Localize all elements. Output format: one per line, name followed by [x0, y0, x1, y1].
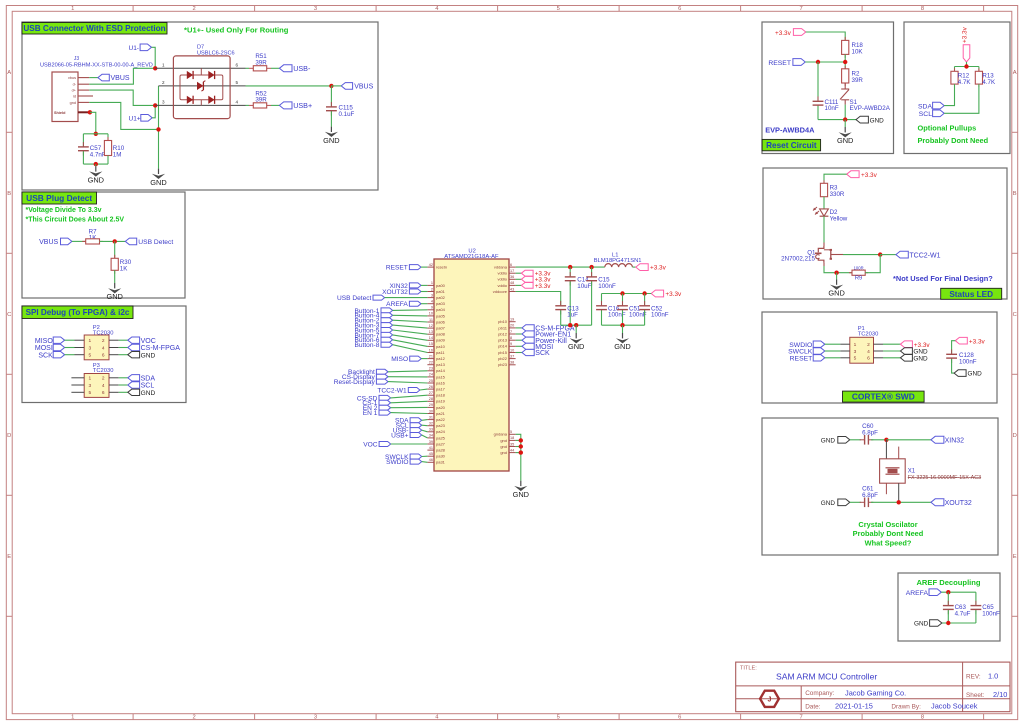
flag +3.3v P1: [900, 341, 912, 348]
title block frame: [736, 662, 1010, 712]
section box Reset Circuit: [762, 22, 894, 154]
node source ground junction: [834, 271, 838, 275]
svg-text:*U1+- Used Only For Routing: *U1+- Used Only For Routing: [184, 26, 289, 35]
svg-text:EVP-AWBD2A: EVP-AWBD2A: [850, 105, 891, 112]
D7 internal diodes top pair: [187, 71, 193, 79]
svg-text:GND: GND: [913, 355, 928, 362]
node reset-R18 junction: [843, 60, 847, 64]
svg-text:2: 2: [192, 715, 195, 721]
svg-text:10: 10: [429, 312, 433, 316]
crystal X1: [880, 459, 906, 483]
switch S1 EVP-AWBD2A: [844, 83, 846, 89]
svg-text:GND: GND: [513, 490, 529, 499]
svg-text:25: 25: [429, 379, 433, 383]
svg-text:pb11: pb11: [498, 325, 507, 330]
flag +3.3v decoupling group 2: [651, 290, 663, 297]
ground symbol below U2: [520, 481, 522, 486]
D7 pin row lines: [155, 67, 245, 69]
svg-text:13: 13: [429, 330, 433, 334]
svg-text:2: 2: [102, 338, 105, 344]
svg-text:23: 23: [429, 367, 433, 371]
svg-text:Sheet:: Sheet:: [966, 692, 985, 699]
flag TCC2-W1 status led: [880, 254, 896, 256]
svg-text:29: 29: [429, 403, 433, 407]
wire R18 to reset node: [844, 54, 846, 68]
logo hexagon J: [760, 691, 779, 707]
svg-text:+3.3v: +3.3v: [962, 26, 969, 43]
svg-text:39R: 39R: [852, 77, 864, 84]
svg-text:pa31: pa31: [436, 460, 446, 465]
svg-text:BLM18PG471SN1: BLM18PG471SN1: [594, 258, 642, 264]
svg-text:3: 3: [314, 6, 317, 12]
ground symbol below C115: [330, 127, 332, 132]
svg-text:C: C: [1013, 312, 1017, 318]
node ground rail junctions: [568, 323, 572, 327]
svg-text:100nF: 100nF: [651, 312, 669, 319]
svg-text:AREF Decoupling: AREF Decoupling: [916, 578, 980, 587]
svg-text:J3: J3: [74, 56, 80, 62]
flag USB+ out: [271, 104, 279, 106]
svg-text:45: 45: [429, 452, 433, 456]
svg-text:REV:: REV:: [966, 674, 981, 681]
svg-text:3: 3: [854, 349, 857, 355]
svg-text:2/10: 2/10: [993, 690, 1007, 699]
svg-text:A: A: [1013, 70, 1017, 76]
svg-text:6: 6: [235, 63, 238, 68]
svg-text:SAM ARM MCU Controller: SAM ARM MCU Controller: [776, 672, 877, 682]
svg-text:D: D: [7, 433, 11, 439]
pin stubs P3 left unconnected: [71, 377, 84, 379]
resistor R3 330R: [823, 180, 825, 183]
flag GND reset circuit: [856, 116, 868, 123]
flag USB- out: [271, 67, 279, 69]
svg-text:pa22: pa22: [436, 417, 446, 422]
svg-text:10: 10: [510, 348, 514, 352]
wires P1 right side: [874, 343, 884, 345]
svg-text:X1: X1: [908, 469, 916, 475]
svg-text:Company:: Company:: [805, 690, 834, 697]
wire +3.3v to R3: [824, 174, 847, 183]
svg-text:Probably Dont Need: Probably Dont Need: [853, 529, 924, 538]
svg-text:pb15: pb15: [498, 350, 508, 355]
flag +3.3v C128: [955, 337, 967, 344]
U2 right side power pins: [509, 266, 516, 268]
wire U1- to junction: [152, 47, 156, 68]
svg-text:R9: R9: [855, 276, 862, 282]
node XOUT32 junction: [897, 500, 901, 504]
svg-text:Drawn By:: Drawn By:: [891, 704, 921, 711]
svg-text:Shield: Shield: [54, 111, 66, 115]
svg-text:26: 26: [429, 385, 433, 389]
ground symbol reset circuit: [844, 127, 846, 132]
wire shield to RC filter: [90, 112, 96, 134]
wire R7 to USB Detect: [100, 240, 126, 242]
svg-text:6: 6: [102, 390, 105, 396]
svg-text:3: 3: [89, 345, 92, 351]
svg-text:39: 39: [429, 440, 433, 444]
node J3 shield junction: [88, 110, 92, 114]
svg-text:GND: GND: [914, 621, 929, 628]
svg-text:41: 41: [429, 446, 433, 450]
resistor R30 1K: [114, 255, 116, 258]
svg-text:pa02: pa02: [436, 295, 446, 300]
wire U2 grounds to ground symbol: [516, 434, 521, 480]
svg-text:pa19: pa19: [436, 399, 446, 404]
node AREF ground junction: [946, 621, 950, 625]
U2 ground pins: [509, 433, 516, 435]
node C15 junction: [589, 265, 593, 269]
svg-text:0.1uF: 0.1uF: [339, 111, 355, 118]
LED D2 Yellow: [820, 209, 829, 216]
svg-text:pa13: pa13: [436, 362, 446, 367]
svg-text:10uF: 10uF: [577, 283, 591, 290]
svg-text:GND: GND: [141, 390, 156, 397]
wires P3 right side: [109, 377, 119, 379]
section box AREF Decoupling: [898, 573, 1000, 641]
svg-text:2021-01-15: 2021-01-15: [835, 702, 873, 711]
capacitor C115 0.1uF: [330, 86, 332, 106]
ground symbol below D7: [158, 169, 160, 174]
node D+ junction: [153, 103, 157, 107]
wire D7 pin2 to ground: [158, 86, 160, 169]
svg-text:Status LED: Status LED: [949, 290, 993, 299]
svg-text:SCK: SCK: [38, 352, 53, 359]
svg-text:1.0: 1.0: [988, 672, 998, 681]
svg-text:44: 44: [510, 448, 514, 452]
wire GND to C60: [850, 439, 861, 441]
svg-text:2: 2: [867, 342, 870, 348]
svg-text:pa15: pa15: [436, 374, 446, 379]
wire decoupling ground rail 2: [602, 324, 645, 326]
svg-text:id: id: [73, 95, 76, 99]
svg-text:TITLE:: TITLE:: [740, 666, 757, 672]
flag CS-M-FPGA: [128, 344, 140, 350]
wire RESET to node: [805, 61, 845, 63]
svg-text:6: 6: [678, 715, 681, 721]
svg-text:FX-3225-16.0000MF-15X-AC3: FX-3225-16.0000MF-15X-AC3: [908, 475, 981, 481]
svg-text:24: 24: [429, 373, 433, 377]
node pullup junction: [964, 64, 968, 68]
svg-text:AREFA: AREFA: [386, 301, 408, 308]
capacitor C13 1uF: [560, 301, 562, 306]
wire decoupling ground rail 1: [561, 324, 592, 326]
svg-text:7: 7: [799, 715, 802, 721]
svg-text:9: 9: [431, 306, 433, 310]
flag +3.3v after L1: [633, 266, 636, 268]
node VBUS junction: [329, 84, 333, 88]
svg-text:vbus: vbus: [68, 76, 76, 80]
flag GND P3: [128, 389, 140, 395]
svg-text:MOSI: MOSI: [35, 345, 53, 352]
svg-text:pa18: pa18: [436, 393, 446, 398]
svg-text:J: J: [768, 696, 772, 703]
svg-text:pa14: pa14: [436, 368, 446, 373]
resistor R52 39R: [246, 104, 250, 106]
svg-text:4: 4: [102, 383, 105, 389]
svg-text:pa27: pa27: [436, 441, 446, 446]
power flags +3.3v at VDDIO pins: [516, 272, 522, 274]
svg-text:1: 1: [162, 63, 165, 68]
ground symbol decoupling 1: [575, 325, 577, 333]
svg-text:pa28: pa28: [436, 448, 446, 453]
svg-text:1uF: 1uF: [567, 312, 578, 319]
svg-text:43: 43: [510, 287, 514, 291]
svg-text:2: 2: [431, 287, 433, 291]
svg-text:+3.3v: +3.3v: [650, 265, 667, 272]
svg-text:5: 5: [235, 80, 238, 85]
svg-text:VBUS: VBUS: [354, 84, 373, 91]
wire VDDANA rail: [516, 266, 605, 268]
svg-text:XOUT32: XOUT32: [382, 289, 408, 296]
resistor R13 4.7K: [978, 67, 980, 72]
svg-text:14: 14: [429, 336, 433, 340]
node gate junction: [878, 252, 882, 256]
svg-text:USB-: USB-: [293, 64, 311, 73]
svg-text:GND: GND: [821, 500, 836, 507]
svg-text:Probably Dont Need: Probably Dont Need: [918, 136, 989, 145]
svg-text:SDA: SDA: [141, 375, 156, 382]
flag VBUS at J3: [89, 77, 98, 79]
node RC bottom junction: [94, 162, 98, 166]
svg-text:100nF: 100nF: [598, 283, 616, 290]
wire to ground status led: [836, 273, 838, 280]
frame row dividers and letters: [6, 131, 12, 133]
flag GND P1 pin6: [900, 355, 912, 362]
wire R10 to bottom rail: [107, 156, 109, 165]
svg-text:1: 1: [854, 342, 857, 348]
wire pullup rail: [966, 62, 968, 67]
svg-text:8: 8: [510, 336, 512, 340]
svg-text:5: 5: [854, 356, 857, 362]
svg-text:CORTEX® SWD: CORTEX® SWD: [852, 392, 915, 402]
resistor R10 1M: [107, 137, 109, 141]
svg-text:VBUS: VBUS: [111, 75, 130, 82]
svg-text:pa04: pa04: [436, 307, 446, 312]
svg-text:38: 38: [510, 361, 514, 365]
svg-text:AREFA: AREFA: [906, 590, 929, 597]
svg-text:SCK: SCK: [535, 350, 550, 357]
svg-text:vddana: vddana: [494, 265, 508, 270]
svg-text:46: 46: [429, 458, 433, 462]
wire LED to Q1 drain: [823, 216, 825, 242]
svg-text:pa16: pa16: [436, 380, 446, 385]
svg-text:100nF: 100nF: [982, 610, 1000, 617]
svg-text:MISO: MISO: [391, 356, 408, 363]
svg-text:7: 7: [799, 6, 802, 12]
svg-text:21: 21: [429, 354, 433, 358]
svg-text:1: 1: [89, 338, 92, 344]
svg-text:GND: GND: [821, 437, 836, 444]
svg-text:vddcore: vddcore: [493, 289, 508, 294]
svg-text:Reset-Display: Reset-Display: [334, 379, 376, 386]
svg-text:2: 2: [102, 376, 105, 382]
svg-text:D: D: [1013, 433, 1017, 439]
svg-text:27: 27: [429, 391, 433, 395]
svg-text:SCL: SCL: [919, 111, 932, 118]
svg-text:Reset Circuit: Reset Circuit: [766, 141, 817, 150]
svg-text:Jacob Gaming Co.: Jacob Gaming Co.: [845, 688, 906, 697]
svg-text:USB Detect: USB Detect: [337, 295, 372, 302]
wire RC parallel top rail: [83, 133, 108, 135]
svg-text:+3.3v: +3.3v: [969, 338, 986, 345]
wire +3.3v to R18: [806, 32, 845, 40]
ground symbol status led: [836, 279, 838, 284]
section box CORTEX SWD: [762, 312, 997, 403]
resistor R51 39R: [246, 67, 250, 69]
svg-text:USB+: USB+: [391, 432, 409, 439]
svg-text:6: 6: [678, 6, 681, 12]
U2 right side port B pins: [509, 321, 516, 323]
wire +3.3v rail group 2: [602, 293, 652, 295]
svg-text:vddio: vddio: [497, 277, 507, 282]
wire SDA to R12: [944, 84, 954, 106]
svg-text:5: 5: [89, 353, 92, 359]
svg-text:*This Circuit Does About 2.5V: *This Circuit Does About 2.5V: [26, 216, 125, 223]
wire D7 pin5 to VBUS: [246, 85, 332, 87]
section box SPI Debug (To FPGA) & i2c: [22, 306, 186, 403]
node C14 junction: [568, 265, 572, 269]
svg-text:+3.3v: +3.3v: [535, 283, 552, 290]
pin stubs J3: [78, 77, 89, 79]
svg-text:B: B: [7, 191, 11, 197]
wire Q1 gate to TCC2-W1: [843, 254, 880, 256]
svg-text:2: 2: [192, 6, 195, 12]
svg-text:3: 3: [314, 715, 317, 721]
svg-text:SCL: SCL: [141, 383, 155, 390]
svg-text:10nF: 10nF: [825, 105, 839, 112]
svg-text:6: 6: [102, 353, 105, 359]
wire U1+ to junction: [152, 105, 155, 117]
wire R9 to gate node: [865, 255, 880, 273]
wire C128 to GND flag: [952, 359, 955, 373]
node D- junction: [153, 66, 157, 70]
svg-text:4.7uF: 4.7uF: [955, 610, 971, 617]
svg-text:5: 5: [510, 430, 512, 434]
flag GND P1 pin4: [900, 348, 912, 355]
svg-text:4: 4: [235, 100, 238, 105]
svg-text:gnd: gnd: [500, 444, 507, 449]
svg-text:pa01: pa01: [436, 289, 446, 294]
svg-text:gndana: gndana: [494, 432, 508, 437]
wire RC parallel bottom rail: [83, 163, 108, 165]
wire C60 to XIN32 node: [871, 439, 886, 441]
svg-text:pb12: pb12: [498, 331, 508, 336]
node reset ground junction: [843, 117, 847, 121]
D7 inner box: [180, 75, 223, 100]
node ground junction: [156, 127, 160, 131]
wire J3 D- to D7 pin1: [89, 68, 155, 84]
svg-text:pa12: pa12: [436, 356, 446, 361]
svg-text:USB Connector With ESD Protect: USB Connector With ESD Protection: [23, 24, 165, 33]
svg-text:100nF: 100nF: [608, 312, 626, 319]
wire C61 to XOUT32 node: [871, 501, 931, 503]
svg-text:Crystal Oscilator: Crystal Oscilator: [858, 520, 917, 529]
svg-text:XIN32: XIN32: [945, 438, 965, 445]
svg-text:+3.3v: +3.3v: [861, 172, 878, 179]
capacitor C128 100nF: [951, 349, 953, 354]
node RC top junction: [94, 132, 98, 136]
svg-text:pb22: pb22: [498, 356, 508, 361]
wire reset ground rail: [818, 119, 856, 121]
svg-text:pa07: pa07: [436, 326, 446, 331]
svg-text:28: 28: [429, 397, 433, 401]
capacitor C57 4.7nF: [82, 142, 84, 147]
svg-text:pb23: pb23: [498, 362, 508, 367]
wires P2 right side: [109, 339, 119, 341]
svg-text:18: 18: [510, 436, 514, 440]
wire J3 GND to ground net: [89, 102, 158, 129]
flag GND C128: [954, 370, 966, 377]
svg-text:8: 8: [921, 715, 924, 721]
svg-text:31: 31: [429, 415, 433, 419]
resistor R12 4.7K: [954, 67, 956, 72]
svg-text:19: 19: [510, 318, 514, 322]
svg-text:20: 20: [510, 324, 514, 328]
svg-text:2N7002,215: 2N7002,215: [781, 255, 815, 262]
resistor R9 100R: [849, 272, 852, 274]
connector J3 USB2066-05-RBHM: [52, 72, 78, 122]
section box Crystal Oscillator: [762, 418, 998, 555]
svg-text:100nF: 100nF: [959, 358, 977, 365]
svg-text:33: 33: [429, 428, 433, 432]
flags on port B pins: [516, 327, 522, 329]
svg-text:100R: 100R: [854, 265, 864, 270]
wire AREF ground rail: [942, 622, 976, 624]
svg-text:pa21: pa21: [436, 411, 446, 416]
svg-text:pa24: pa24: [436, 429, 446, 434]
svg-text:TCC2-W1: TCC2-W1: [377, 387, 407, 394]
svg-text:What Speed?: What Speed?: [865, 539, 912, 548]
flag VBUS right: [341, 83, 352, 90]
svg-text:U1-: U1-: [129, 45, 139, 52]
svg-text:6: 6: [510, 263, 512, 267]
svg-text:B: B: [1013, 191, 1017, 197]
svg-text:USB Plug Detect: USB Plug Detect: [26, 193, 92, 203]
title Reset Circuit: [762, 139, 821, 150]
svg-text:U1+: U1+: [129, 115, 141, 122]
section box Optional Pullups: [904, 22, 1010, 154]
svg-text:16: 16: [429, 348, 433, 352]
D7 center ticks: [200, 68, 202, 75]
svg-text:vddio: vddio: [497, 283, 507, 288]
svg-text:7: 7: [510, 330, 512, 334]
svg-text:resetn: resetn: [436, 265, 447, 270]
wire AREFA rail: [941, 591, 976, 593]
svg-text:pa17: pa17: [436, 387, 446, 392]
svg-text:pa10: pa10: [436, 344, 446, 349]
svg-text:EN 1: EN 1: [363, 410, 378, 417]
svg-text:*Not Used For Final Design?: *Not Used For Final Design?: [893, 274, 993, 283]
wire VBUS to R7: [72, 240, 86, 242]
svg-text:pa23: pa23: [436, 423, 446, 428]
svg-text:VOC: VOC: [363, 441, 378, 448]
svg-text:+3.3v: +3.3v: [775, 30, 792, 37]
capacitor C15 100nF: [591, 267, 593, 276]
wire +3.3v to C128: [952, 341, 956, 354]
svg-text:4.7K: 4.7K: [982, 79, 996, 86]
svg-text:9: 9: [510, 342, 512, 346]
section box USB Connector With ESD Protection: [22, 22, 378, 190]
wire to ground symbol: [844, 120, 846, 127]
svg-text:GND: GND: [837, 136, 853, 145]
svg-text:USB+: USB+: [293, 101, 312, 110]
svg-text:pa25: pa25: [436, 435, 446, 440]
frame column dividers and numbers: [132, 6, 134, 12]
svg-text:C: C: [7, 312, 11, 318]
svg-text:XOUT32: XOUT32: [945, 500, 972, 507]
svg-text:5: 5: [557, 715, 560, 721]
D7 center zener diode: [197, 82, 203, 90]
